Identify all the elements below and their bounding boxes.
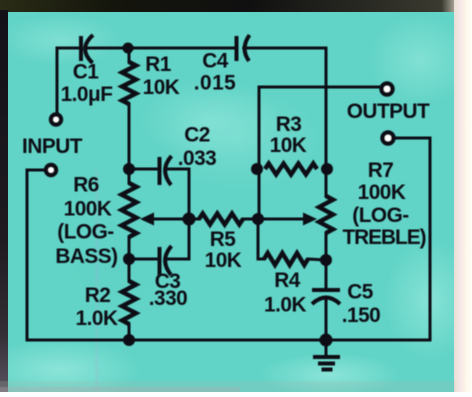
wire top rail C1 to node A bbox=[86, 47, 128, 50]
svg-text:10K: 10K bbox=[270, 134, 307, 157]
svg-text:.330: .330 bbox=[149, 287, 187, 310]
node D junction dot bbox=[123, 334, 135, 346]
svg-text:10K: 10K bbox=[205, 249, 242, 272]
resistor R3 10K bbox=[265, 164, 317, 175]
wire R6 wiper arm bbox=[152, 218, 189, 221]
svg-text:R1: R1 bbox=[145, 53, 171, 76]
svg-text:.033: .033 bbox=[178, 147, 216, 170]
wire C1 branch down to terminal bbox=[56, 48, 59, 113]
wire R4 right lead bbox=[308, 259, 326, 260]
capacitor C1 plates bbox=[79, 36, 83, 61]
svg-text:(LOG-: (LOG- bbox=[57, 221, 114, 244]
svg-text:1.0K: 1.0K bbox=[264, 294, 306, 317]
wire R1 leads bbox=[128, 48, 131, 62]
dark scanned bar top edge bbox=[0, 0, 455, 12]
wire output branch bbox=[326, 86, 379, 89]
terminal OUTPUT lower bbox=[383, 133, 394, 144]
svg-text:TREBLE): TREBLE) bbox=[342, 226, 425, 249]
wire C2 branch bbox=[129, 168, 157, 171]
terminal INPUT bbox=[46, 165, 56, 175]
resistor R2 1.0K bbox=[122, 281, 136, 324]
wire R6 leads bbox=[128, 169, 131, 183]
svg-text:C5: C5 bbox=[347, 281, 373, 304]
faint scan streak bbox=[95, 170, 99, 392]
svg-text:R3: R3 bbox=[276, 113, 302, 136]
wire R2 leads bbox=[128, 259, 131, 281]
wire top rail left segment bbox=[57, 47, 79, 50]
wire R7 pot leads bbox=[325, 169, 328, 196]
svg-text:R2: R2 bbox=[85, 284, 111, 307]
terminal upper-left bbox=[51, 115, 61, 125]
dark scanned bar left edge bbox=[0, 10, 8, 392]
wire input terminal to left rail bbox=[27, 170, 44, 340]
R7 wiper arrowhead bbox=[303, 213, 317, 226]
svg-text:R6: R6 bbox=[73, 174, 99, 197]
wire node F down to R4 bbox=[258, 219, 264, 259]
potentiometer R6 100K body bbox=[122, 183, 137, 237]
node F junction dot bbox=[252, 213, 264, 225]
node H junction dot bbox=[321, 163, 333, 175]
white page strip right edge bbox=[454, 0, 472, 392]
svg-text:R5: R5 bbox=[210, 228, 236, 251]
svg-text:R4: R4 bbox=[274, 269, 301, 292]
svg-text:BASS): BASS) bbox=[55, 245, 117, 268]
svg-text:R7: R7 bbox=[368, 159, 394, 182]
svg-text:100K: 100K bbox=[358, 181, 406, 204]
svg-text:1.0μF: 1.0μF bbox=[61, 83, 113, 106]
node J junction dot bbox=[320, 334, 333, 347]
node A junction dot bbox=[123, 43, 134, 54]
svg-text:.150: .150 bbox=[342, 304, 380, 327]
node I junction dot bbox=[320, 254, 332, 266]
capacitor C5 plates bbox=[312, 288, 340, 292]
wire top rail node A to C4 bbox=[128, 47, 235, 50]
resistor R4 1.0K bbox=[264, 253, 308, 265]
wire ground stub bbox=[325, 340, 328, 355]
resistor R5 10K bbox=[199, 214, 243, 225]
svg-text:OUTPUT: OUTPUT bbox=[347, 100, 430, 123]
wire top rail C4 to right corner bbox=[244, 48, 326, 196]
wire bottom ground rail bbox=[27, 339, 430, 342]
resistor R1 10K bbox=[122, 62, 136, 104]
svg-text:C1: C1 bbox=[73, 61, 99, 84]
ground bars bbox=[313, 355, 340, 359]
node E junction dot bbox=[183, 213, 196, 226]
svg-text:1.0K: 1.0K bbox=[76, 307, 118, 330]
node G junction dot bbox=[251, 163, 263, 175]
svg-text:(LOG-: (LOG- bbox=[352, 204, 409, 227]
svg-text:10K: 10K bbox=[143, 76, 180, 99]
node B junction dot bbox=[123, 163, 135, 175]
svg-text:.015: .015 bbox=[194, 72, 236, 95]
wire right rail up to output jack bbox=[396, 138, 430, 340]
svg-text:C4: C4 bbox=[202, 50, 229, 73]
wire C3 branch bbox=[129, 258, 157, 261]
wire R5 leads bbox=[189, 218, 199, 221]
bottom scan smudge bbox=[0, 381, 455, 392]
svg-text:100K: 100K bbox=[64, 198, 112, 221]
capacitor C2 plates bbox=[158, 157, 162, 185]
svg-text:C2: C2 bbox=[184, 124, 210, 147]
potentiometer R7 100K body bbox=[319, 196, 333, 233]
capacitor C4 plates bbox=[235, 36, 239, 61]
R6 wiper arrowhead bbox=[140, 213, 154, 226]
node C junction dot bbox=[123, 253, 135, 265]
capacitor C3 plates bbox=[158, 247, 162, 275]
wire node F to R7 wiper arm bbox=[258, 218, 304, 221]
wire C5 leads bbox=[325, 260, 328, 288]
wire R3 box top and left side bbox=[259, 87, 326, 219]
terminal OUTPUT upper bbox=[382, 84, 393, 95]
svg-text:INPUT: INPUT bbox=[22, 135, 83, 158]
